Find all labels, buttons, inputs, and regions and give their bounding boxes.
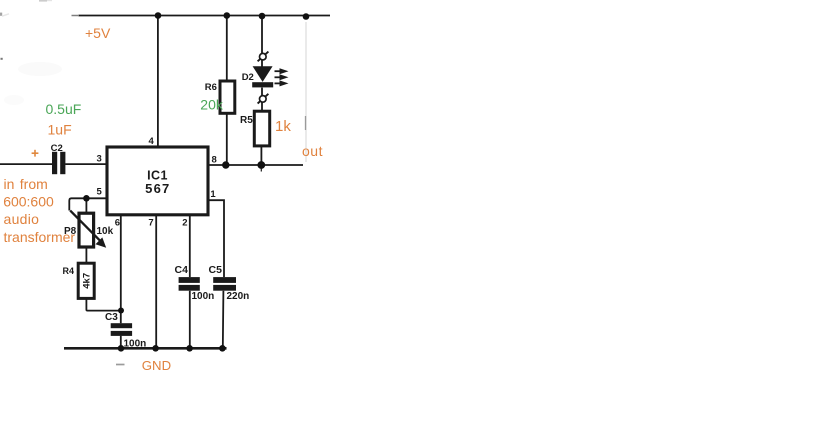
svg-text:R5: R5: [240, 115, 253, 126]
svg-text:4k7: 4k7: [82, 273, 93, 289]
svg-text:7: 7: [148, 218, 153, 229]
svg-text:8: 8: [212, 155, 217, 166]
svg-text:GND: GND: [142, 358, 171, 373]
svg-text:2: 2: [182, 218, 187, 229]
svg-text:+5V: +5V: [85, 25, 111, 41]
svg-text:600:600: 600:600: [3, 193, 54, 209]
svg-text:100n: 100n: [192, 291, 215, 302]
svg-text:1k: 1k: [275, 118, 291, 135]
svg-text:in from: in from: [4, 176, 48, 192]
svg-text:3: 3: [97, 154, 102, 165]
svg-text:C3: C3: [105, 312, 118, 323]
svg-text:transformer: transformer: [4, 229, 76, 245]
svg-text:D2: D2: [242, 72, 254, 83]
svg-text:20k: 20k: [200, 97, 224, 113]
svg-text:4: 4: [149, 136, 155, 147]
svg-text:5: 5: [97, 187, 103, 198]
svg-text:R6: R6: [205, 82, 217, 93]
svg-text:1uF: 1uF: [48, 122, 72, 138]
svg-text:C2: C2: [51, 143, 63, 154]
svg-text:567: 567: [145, 181, 170, 196]
svg-text:out: out: [302, 143, 323, 159]
svg-text:10k: 10k: [97, 226, 114, 237]
svg-text:audio: audio: [4, 211, 40, 227]
svg-text:220n: 220n: [227, 291, 250, 302]
svg-text:C5: C5: [209, 264, 223, 276]
svg-text:R4: R4: [63, 266, 75, 276]
svg-text:6: 6: [115, 217, 120, 228]
svg-text:C4: C4: [175, 264, 189, 276]
svg-text:100n: 100n: [124, 338, 147, 349]
svg-text:1: 1: [210, 189, 216, 200]
svg-text:0.5uF: 0.5uF: [46, 101, 82, 117]
